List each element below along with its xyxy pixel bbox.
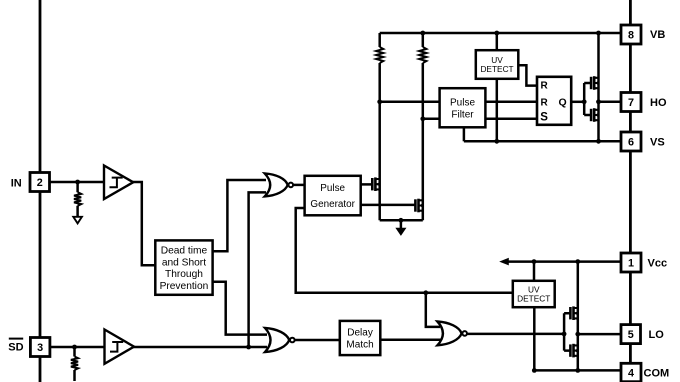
wire left input rail <box>39 0 42 382</box>
wire UV detect 1 bottom to VS rail <box>496 79 499 142</box>
node Vcc/UV2 <box>532 259 537 264</box>
ground Vss arrow (IN) <box>73 217 82 224</box>
svg-text:Dead time: Dead time <box>161 246 208 257</box>
node rail/HO drain <box>596 31 601 36</box>
transistor M2 level-shift NMOS <box>415 199 423 213</box>
svg-text:7: 7 <box>628 97 634 109</box>
wire IN pin2 to buffer U2 input <box>50 181 106 184</box>
svg-text:Q: Q <box>559 96 567 108</box>
node UV2/COM <box>532 368 537 373</box>
box dead-time and shoot-through prevention <box>155 240 212 294</box>
wire top VB rail <box>380 32 621 35</box>
svg-text:8: 8 <box>628 29 634 41</box>
ground arrow (level shifter) <box>396 228 405 235</box>
box delay match <box>340 321 381 355</box>
resistor R1 level-shift <box>376 47 383 63</box>
wire dead-time box lower output to NOR G2 upper input <box>213 282 267 335</box>
resistor R-SD pulldown <box>71 357 78 371</box>
node rail/UV1 <box>494 31 499 36</box>
node rail/R2 <box>420 31 425 36</box>
node M1 drain / filter tap <box>377 99 382 104</box>
wire HO totem conductor <box>597 33 600 141</box>
pin 4 box (COM) <box>621 363 641 381</box>
wire LO gate bus <box>564 313 570 350</box>
svg-text:VS: VS <box>650 137 665 149</box>
node IN pulldown tap <box>75 180 80 185</box>
wire latch Q output to HO gates <box>571 101 584 104</box>
latch U4 RS (R R S Q) <box>537 77 571 125</box>
gate G3 NOR (LO driver) <box>437 322 467 346</box>
wire SD pin3 to buffer U3 and NOR G2 input <box>50 346 267 349</box>
node HO source / VS rail <box>596 139 601 144</box>
wire LO totem conductor <box>577 262 580 371</box>
svg-text:Generator: Generator <box>310 199 355 210</box>
op-amp U2 schmitt input buffer (IN) <box>104 166 133 200</box>
svg-text:S: S <box>540 112 548 124</box>
wire pulse filter output A to latch R <box>485 101 537 104</box>
resistor R-IN pulldown <box>74 192 81 206</box>
wire Vcc line with arrow <box>504 260 621 263</box>
pin 8 box (VB) <box>621 25 641 44</box>
wire right pin rail <box>629 0 632 382</box>
gate G2 NOR (low side) <box>265 328 295 352</box>
transistor Q3 LO high driver <box>570 306 578 320</box>
box pulse filter <box>440 88 486 127</box>
wire UV detect 2 bottom to COM rail <box>533 307 536 370</box>
wire pulse generator lower output to M2 gate <box>361 204 416 207</box>
box pulse generator <box>305 176 361 216</box>
wire HO gate bus <box>584 83 591 115</box>
node branch to NOR G3 <box>423 290 428 295</box>
wire UV detect 1 output to latch R (top) <box>518 65 537 85</box>
wire delay match output to NOR G3 lower input <box>380 339 441 342</box>
wire HO output node to pin 7 <box>599 101 622 104</box>
wire pulse filter output B to latch S <box>485 118 537 121</box>
node M2 drain / filter tap <box>420 116 425 121</box>
box UV detect (high side) <box>476 50 519 79</box>
node SD pulldown tap <box>72 345 77 350</box>
pin 6 box (VS) <box>621 132 641 151</box>
pin 1 box (Vcc) <box>621 253 641 272</box>
wire pulse generator left stub down to LO-side UV detect <box>296 208 514 293</box>
node G3 out/gate bus <box>562 332 567 337</box>
node Q/gate bus <box>582 99 587 104</box>
svg-text:6: 6 <box>628 136 634 148</box>
svg-text:DETECT: DETECT <box>480 64 513 74</box>
wire buffer U2 output to dead-time box input <box>132 182 156 265</box>
wire NOR G2 output to delay match <box>294 339 341 342</box>
wire pulse filter input A from M1 drain node <box>380 101 440 104</box>
svg-text:DETECT: DETECT <box>517 293 550 303</box>
wire UV detect 2 top feed <box>533 262 536 281</box>
svg-text:SD: SD <box>8 341 23 353</box>
wire VS rail <box>464 140 621 143</box>
svg-text:Pulse: Pulse <box>320 183 345 194</box>
wire LO output node to pin 5 <box>578 333 621 336</box>
wire level-shift leg 2 (R2/M2 conductor) <box>422 33 425 220</box>
svg-text:Through: Through <box>165 269 203 280</box>
pin 2 box (IN) <box>30 173 50 192</box>
svg-text:4: 4 <box>628 367 634 379</box>
transistor Q2 HO low driver <box>591 108 599 122</box>
svg-text:LO: LO <box>649 329 665 341</box>
svg-text:Prevention: Prevention <box>160 281 209 292</box>
wire SD riser to NOR G1 lower input <box>249 192 266 347</box>
svg-text:Pulse: Pulse <box>450 97 475 108</box>
node UV1/VS rail <box>494 139 499 144</box>
wire SD pulldown <box>73 347 76 381</box>
wire dead-time box upper output to NOR G1 upper input <box>213 180 266 251</box>
wire pulse generator upper output to M1 gate <box>361 183 373 186</box>
node level-shift ground junction <box>399 218 404 223</box>
pin 5 box (LO) <box>621 325 641 344</box>
wire IN pulldown <box>76 182 79 217</box>
svg-text:R: R <box>541 81 549 92</box>
pin 7 box (HO) <box>621 93 641 112</box>
gate G1 NOR (high side) <box>265 173 293 196</box>
svg-text:IN: IN <box>11 177 22 189</box>
op-amp U3 schmitt input buffer (SD) <box>105 330 135 364</box>
transistor Q1 HO high driver <box>591 76 599 90</box>
wire UV detect 1 top feed <box>496 33 499 51</box>
wire NOR G1 output to pulse generator <box>293 184 306 187</box>
svg-text:HO: HO <box>650 97 667 109</box>
wire level-shift leg 1 (R1/M1 conductor) <box>378 33 381 220</box>
svg-text:COM: COM <box>644 368 670 380</box>
svg-text:3: 3 <box>37 342 43 354</box>
svg-text:VB: VB <box>650 29 665 41</box>
node LO source/COM <box>575 368 580 373</box>
node Vcc/LO drain <box>575 259 580 264</box>
node HO mid <box>596 99 601 104</box>
svg-text:5: 5 <box>628 329 634 341</box>
wire pulse filter bottom to VS rail <box>463 127 466 141</box>
node LO mid <box>575 332 580 337</box>
svg-text:Match: Match <box>346 340 373 351</box>
transistor Q4 LO low driver <box>570 344 578 358</box>
svg-text:Vcc: Vcc <box>648 257 668 269</box>
pin 3 box (SD) <box>30 338 50 357</box>
wire COM rail <box>534 369 621 372</box>
resistor R2 level-shift <box>419 47 426 63</box>
transistor M1 level-shift NMOS <box>372 177 380 191</box>
wire pulse filter input B from M2 drain node <box>423 118 440 121</box>
svg-text:1: 1 <box>628 257 634 269</box>
svg-text:and Short: and Short <box>162 257 206 268</box>
arrow Vcc supply pointing left <box>499 258 509 266</box>
wire NOR G3 output to LO gates <box>466 333 564 336</box>
wire level-shift source rail to ground <box>380 220 423 229</box>
node SD riser junction <box>246 345 251 350</box>
wire branch down to NOR G3 upper input <box>426 293 440 327</box>
svg-text:Filter: Filter <box>451 109 474 120</box>
svg-text:2: 2 <box>37 177 43 189</box>
svg-text:Delay: Delay <box>347 328 373 339</box>
svg-text:R: R <box>541 97 549 108</box>
box UV detect (low side) <box>513 281 555 307</box>
